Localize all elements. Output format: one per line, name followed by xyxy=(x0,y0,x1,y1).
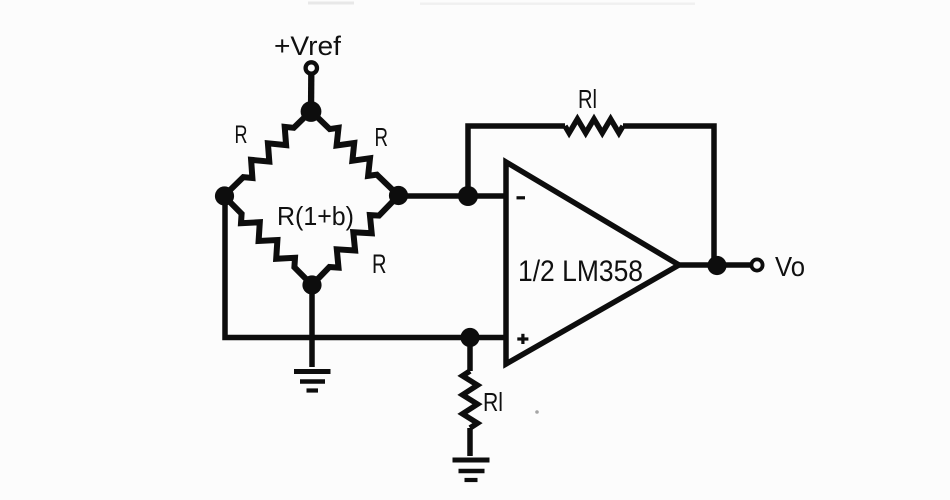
svg-text:1/2 LM358: 1/2 LM358 xyxy=(518,255,643,288)
node : bridge right xyxy=(389,186,408,205)
op-amp plus input sign xyxy=(517,337,528,340)
speck artifact xyxy=(535,410,539,414)
smudge artifact top xyxy=(308,2,354,5)
svg-text:Rl: Rl xyxy=(578,84,597,114)
node : bridge bottom xyxy=(302,275,321,294)
resistor R (bridge top-right arm) xyxy=(311,111,399,196)
wire : feedback loop left riser and top run xyxy=(468,126,565,196)
resistor Rl (feedback) xyxy=(565,119,623,133)
wire : Rl to ground symbol xyxy=(467,428,473,456)
node : bridge top xyxy=(301,101,322,122)
node : inverting input / feedback junction xyxy=(458,186,478,206)
svg-text:R(1+b): R(1+b) xyxy=(277,201,354,231)
svg-text:Rl: Rl xyxy=(483,387,503,417)
ground (below Rl) xyxy=(453,460,490,480)
node : output junction xyxy=(707,256,726,275)
wire : bridge left node down and along bottom to non-inverting input xyxy=(225,196,506,338)
terminal Vo (open circle) xyxy=(751,259,762,270)
svg-text:R: R xyxy=(235,121,248,149)
resistor R(1+b) (bridge bottom-left arm) xyxy=(224,196,312,285)
resistor R (bridge top-left arm) xyxy=(224,111,311,196)
resistor R (bridge bottom-right arm) xyxy=(312,196,399,286)
svg-text:+Vref: +Vref xyxy=(274,31,342,61)
wire : bridge bottom node down to ground xyxy=(309,285,315,367)
wire : node to Rl (to ground) xyxy=(467,338,473,372)
svg-text:R: R xyxy=(375,122,389,152)
resistor Rl (to ground) xyxy=(463,371,478,428)
op-amp minus input sign xyxy=(517,196,526,199)
node : non-inverting input / Rl junction xyxy=(460,328,479,347)
op-amp U1 triangle xyxy=(506,162,679,364)
wire : +Vref stem to bridge top xyxy=(308,75,315,114)
wire : bridge right node to op-amp inverting input xyxy=(399,193,507,199)
svg-text:R: R xyxy=(372,249,387,279)
svg-text:Vo: Vo xyxy=(775,251,805,282)
wire : feedback top run right and drop to output xyxy=(623,126,714,262)
node : bridge left xyxy=(215,186,234,205)
wire : op-amp output to Vo terminal xyxy=(679,262,751,268)
ground (bridge bottom) xyxy=(294,372,331,391)
terminal +Vref (open circle) xyxy=(306,62,317,73)
